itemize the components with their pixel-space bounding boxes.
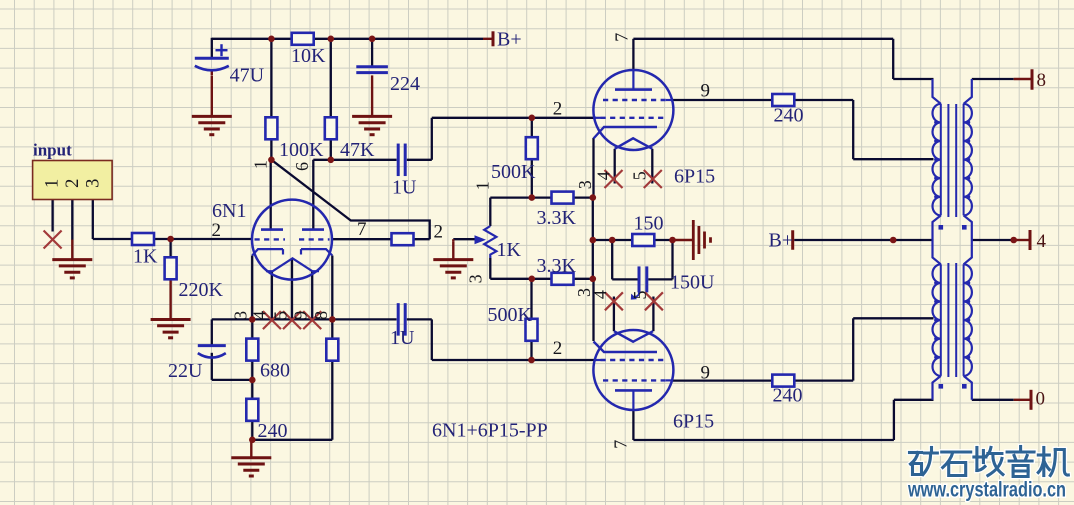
svg-text:4: 4 [250,311,270,320]
svg-text:3.3K: 3.3K [537,207,577,229]
svg-text:100K: 100K [279,139,324,161]
svg-text:7: 7 [612,33,632,42]
svg-text:3: 3 [466,274,486,283]
svg-text:47U: 47U [230,65,265,87]
svg-text:7: 7 [357,219,367,240]
svg-text:www.crystalradio.cn: www.crystalradio.cn [907,479,1066,502]
svg-text:220K: 220K [179,279,224,301]
svg-text:3: 3 [230,311,250,320]
svg-text:1U: 1U [392,177,417,199]
svg-text:2: 2 [63,179,83,188]
svg-text:9: 9 [701,81,711,102]
svg-text:1K: 1K [133,246,158,268]
svg-text:3: 3 [84,179,104,188]
svg-text:240: 240 [258,420,288,442]
svg-text:6N1: 6N1 [212,200,246,222]
svg-text:680: 680 [260,360,290,382]
svg-text:9: 9 [701,363,711,384]
svg-text:224: 224 [390,73,420,95]
svg-text:22U: 22U [168,360,203,382]
svg-text:150U: 150U [670,272,715,294]
svg-text:B+: B+ [769,230,794,252]
svg-text:5: 5 [271,311,291,320]
svg-text:4: 4 [594,171,614,180]
svg-text:150: 150 [634,213,664,235]
svg-text:1: 1 [250,160,270,169]
svg-text:1U: 1U [390,327,415,349]
svg-text:2: 2 [553,338,563,359]
svg-text:2: 2 [212,220,222,241]
svg-text:6P15: 6P15 [673,411,714,433]
svg-text:500K: 500K [491,161,536,183]
svg-text:6: 6 [292,162,312,171]
svg-text:5: 5 [630,291,650,300]
svg-text:9: 9 [290,311,310,320]
svg-text:240: 240 [773,385,803,407]
svg-text:1: 1 [472,181,492,190]
svg-text:4: 4 [590,290,610,299]
svg-text:B+: B+ [497,29,522,51]
svg-text:7: 7 [610,440,630,449]
svg-text:4: 4 [1037,231,1047,252]
svg-text:3.3K: 3.3K [537,255,577,277]
svg-text:240: 240 [774,105,804,127]
svg-text:3: 3 [575,180,595,189]
svg-text:2: 2 [434,222,444,243]
svg-text:8: 8 [311,311,331,320]
svg-text:1: 1 [42,179,62,188]
svg-text:500K: 500K [488,304,533,326]
svg-text:0: 0 [1036,389,1046,410]
svg-text:6P15: 6P15 [674,166,715,188]
svg-text:6N1+6P15-PP: 6N1+6P15-PP [432,420,548,442]
svg-text:1K: 1K [497,239,522,261]
svg-text:5: 5 [629,171,649,180]
svg-text:47K: 47K [340,139,375,161]
svg-text:input: input [33,141,72,160]
svg-text:10K: 10K [291,45,326,67]
svg-text:2: 2 [553,99,563,120]
svg-text:8: 8 [1037,70,1047,91]
